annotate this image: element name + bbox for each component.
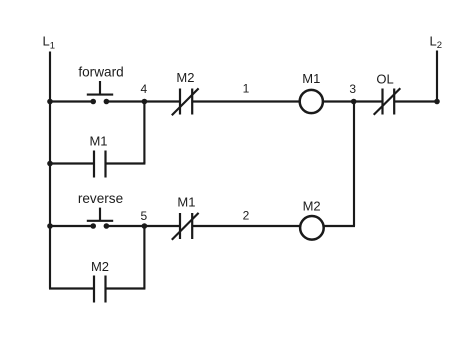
- wire reverse button to node 5: [106, 225, 144, 227]
- svg-text:OL: OL: [376, 72, 393, 87]
- wire L1 to reverse button: [49, 225, 93, 227]
- svg-text:M2: M2: [303, 199, 321, 214]
- branch wire node 5 down to holding contact M2: [143, 226, 145, 289]
- wire L1 to holding contact M2: [49, 287, 94, 289]
- pushbutton reverse (NO): [87, 208, 113, 229]
- right rail L2: [436, 51, 438, 102]
- svg-text:forward: forward: [78, 65, 123, 80]
- contact M2 normally-closed: [172, 88, 199, 115]
- contact M2 normally-open (holding): [94, 276, 106, 303]
- svg-text:L2: L2: [430, 34, 443, 52]
- coil M2: [300, 216, 324, 240]
- svg-text:2: 2: [243, 209, 250, 223]
- wire L1 to forward button: [49, 100, 93, 102]
- node 3 junction: [351, 99, 357, 105]
- contact M1 normally-open (holding): [94, 151, 106, 178]
- wire node 4 to contact M2: [144, 100, 179, 102]
- wire coil M2 to node 3 branch: [324, 225, 355, 227]
- pushbutton forward (NO): [87, 81, 113, 104]
- node 4 junction: [142, 99, 148, 105]
- wire coil M1 to node 3: [323, 100, 354, 102]
- svg-text:3: 3: [349, 82, 356, 96]
- svg-text:4: 4: [140, 82, 147, 96]
- wire L1 to holding contact M1: [49, 162, 94, 164]
- wire forward button to node 4: [106, 100, 144, 102]
- svg-text:M2: M2: [176, 70, 194, 85]
- junction on L1 rail at holding rung: [47, 161, 53, 167]
- svg-text:M1: M1: [177, 195, 195, 210]
- contact OL normally-closed: [374, 88, 401, 115]
- junction on L1 rail at rung 2: [47, 223, 53, 229]
- wire holding contact M2 to node 5 branch: [106, 287, 146, 289]
- branch wire up from coil M2 to node 3: [353, 102, 355, 227]
- wire 2 (contact M1 to coil M2): [192, 225, 300, 227]
- svg-text:L1: L1: [43, 34, 56, 52]
- svg-text:5: 5: [140, 209, 147, 223]
- svg-text:reverse: reverse: [78, 191, 123, 206]
- wire node 5 to contact M1: [144, 225, 179, 227]
- wire 1 (contact M2 to coil M1): [192, 100, 300, 102]
- branch wire node 4 down to holding contact M1: [143, 102, 145, 164]
- left rail L1: [49, 52, 51, 289]
- svg-text:M1: M1: [89, 134, 107, 149]
- wire holding contact M1 to node 4 branch: [106, 162, 146, 164]
- svg-text:1: 1: [243, 82, 250, 96]
- coil M1: [300, 90, 323, 113]
- contact M1 normally-closed: [172, 213, 199, 240]
- node 5 junction: [142, 223, 148, 229]
- junction on L2 rail: [434, 99, 440, 105]
- svg-text:M1: M1: [302, 71, 320, 86]
- svg-text:M2: M2: [91, 259, 109, 274]
- junction on L1 rail at rung 1: [47, 99, 53, 105]
- wire node 3 to contact OL: [354, 100, 382, 102]
- wire contact OL to L2 rail: [394, 100, 437, 102]
